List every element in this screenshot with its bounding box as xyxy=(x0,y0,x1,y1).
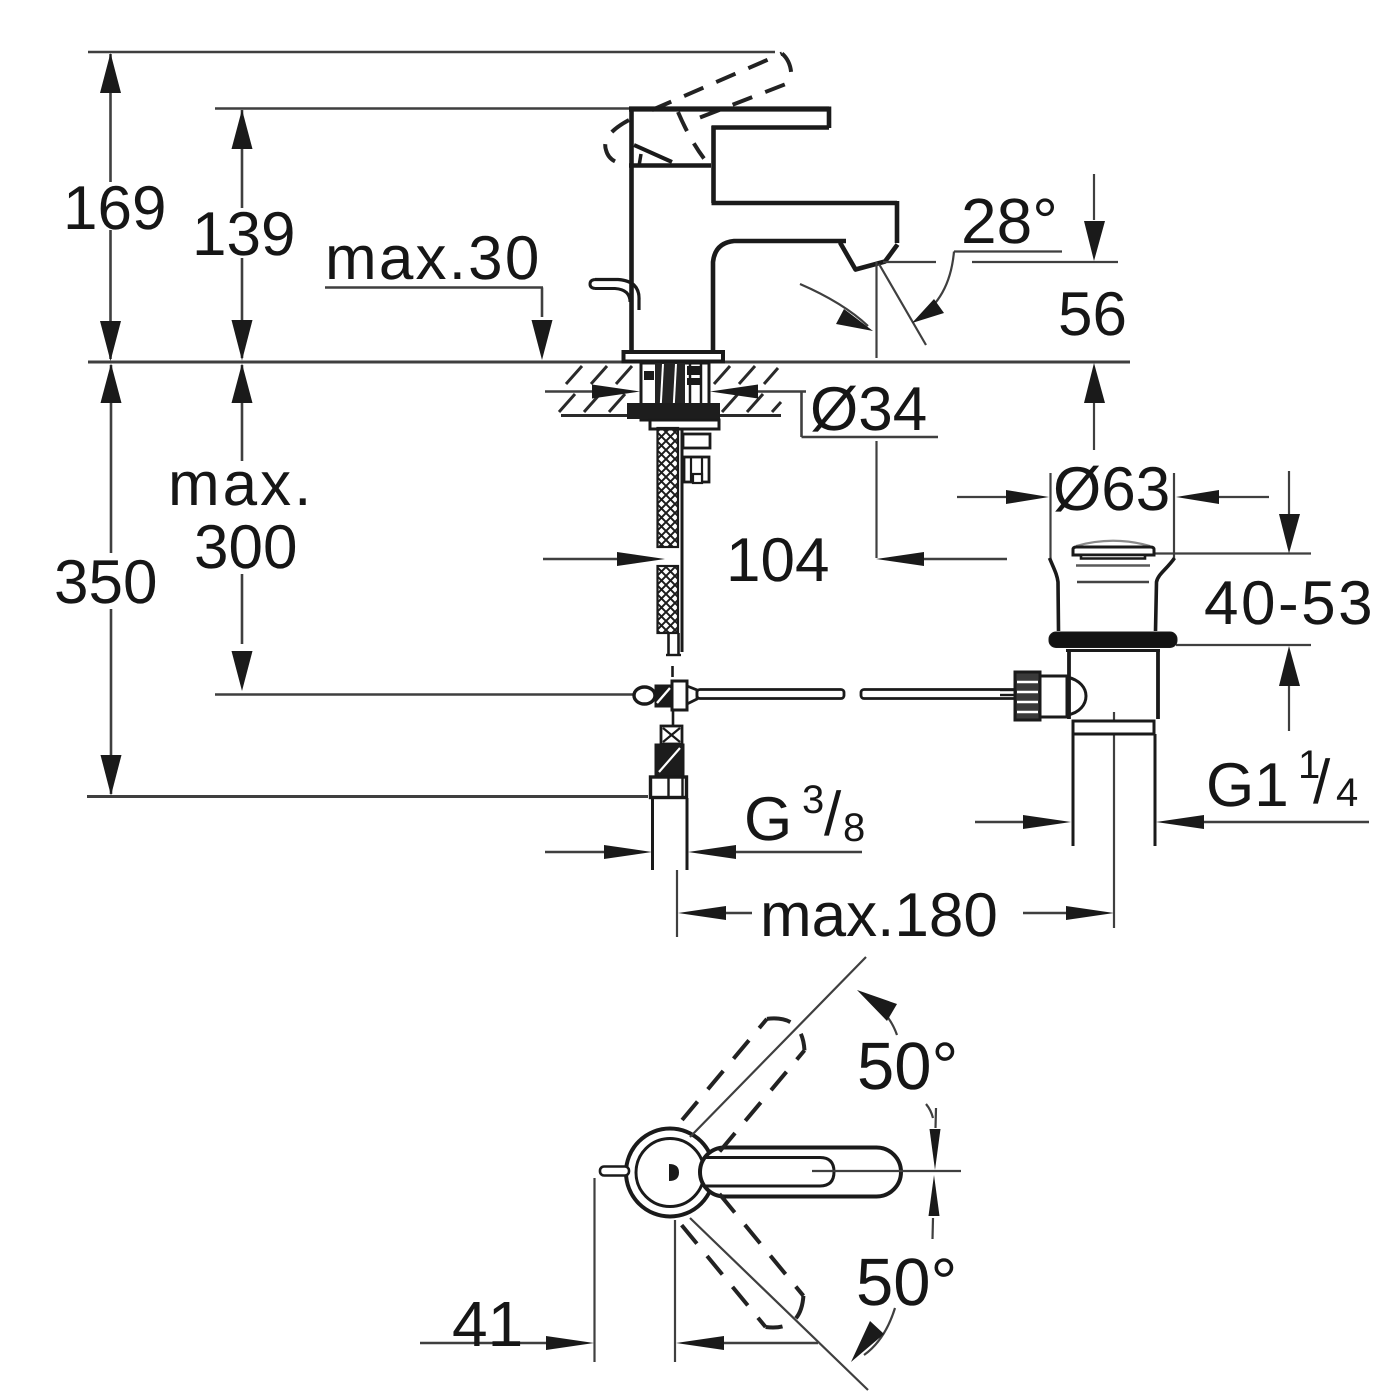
svg-text:300: 300 xyxy=(194,513,297,582)
svg-text:104: 104 xyxy=(726,526,829,595)
svg-text:Ø34: Ø34 xyxy=(810,375,927,444)
svg-text:G1: G1 xyxy=(1206,751,1289,820)
svg-text:4: 4 xyxy=(1336,771,1358,815)
svg-text:max.: max. xyxy=(168,450,314,519)
svg-text:50°: 50° xyxy=(857,1029,958,1104)
svg-text:max.180: max.180 xyxy=(760,881,998,950)
svg-text:8: 8 xyxy=(843,806,865,850)
svg-text:169: 169 xyxy=(63,174,166,243)
svg-text:56: 56 xyxy=(1058,280,1127,349)
svg-text:139: 139 xyxy=(192,200,295,269)
svg-text:/: / xyxy=(824,780,842,849)
svg-text:/: / xyxy=(1313,748,1331,817)
svg-text:max.30: max.30 xyxy=(325,224,542,293)
svg-text:G: G xyxy=(744,785,792,854)
svg-text:40-53: 40-53 xyxy=(1204,569,1375,638)
svg-text:50°: 50° xyxy=(856,1245,957,1320)
svg-text:28°: 28° xyxy=(961,185,1058,257)
svg-text:350: 350 xyxy=(54,548,157,617)
svg-text:41: 41 xyxy=(452,1288,523,1360)
svg-text:Ø63: Ø63 xyxy=(1053,455,1170,524)
svg-text:3: 3 xyxy=(802,778,824,822)
